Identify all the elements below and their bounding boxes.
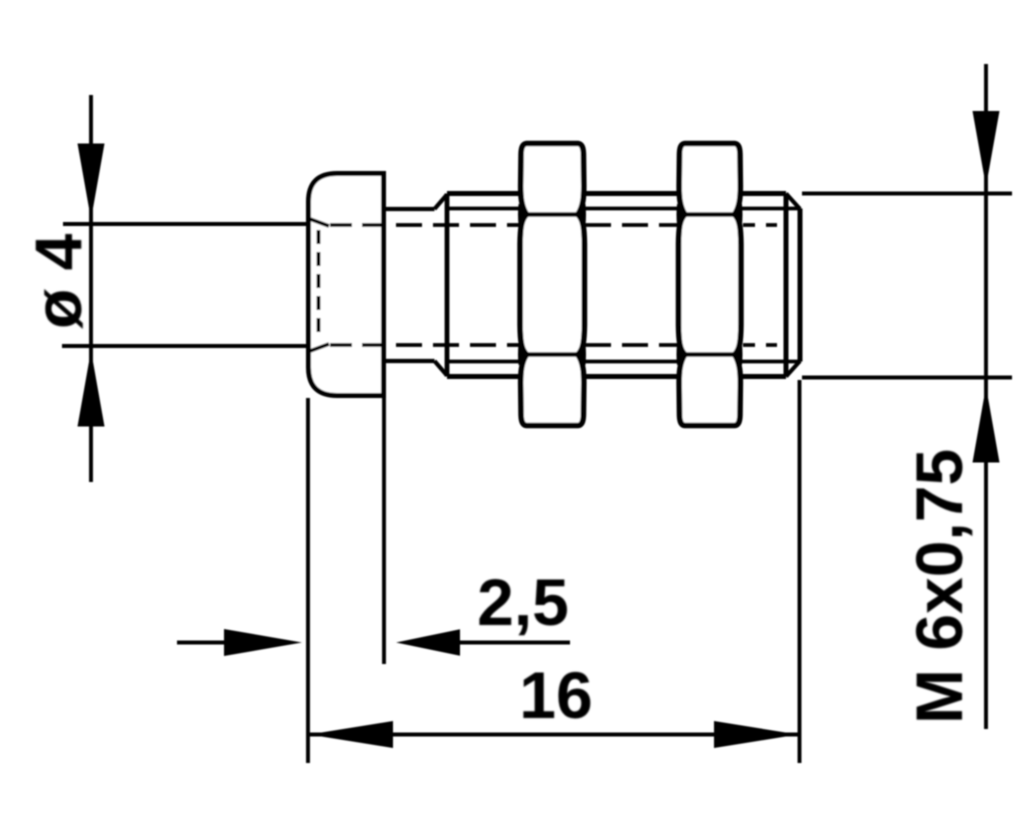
wire: thread start vertical edge [445,194,450,377]
nut N1 lower waist line [527,352,578,356]
cap hidden bore dash bottom [330,343,382,347]
nut cusp wedge [677,344,687,366]
svg-text:16: 16 [519,658,592,732]
wire: end face vertical edge [798,209,803,362]
nut N2 upper waist line [684,212,735,216]
dimension 16 arrow left [309,721,393,748]
wire: neck top line between cap and thread [384,207,435,211]
wire: neck bottom line between cap and thread [384,359,435,363]
dimension ø4 dimension line [89,95,93,482]
cap hidden bore end dashed vertical [317,230,321,340]
dimension 2,5 extension line left [306,398,310,763]
nut cusp wedge [518,204,528,226]
nut N2 lower waist line [684,352,735,356]
dimension 16 extension line right [798,380,802,763]
cap bore chamfer bottom [310,344,329,351]
cap body outline [309,174,384,396]
wire: thread root top line [447,207,800,211]
wire: thread crest bottom line [447,374,786,379]
wire: hidden bore dashed line bottom segment 1 [385,343,519,347]
dimension 2,5 leader line left [177,641,225,645]
svg-text:M 6x0,75: M 6x0,75 [902,449,976,724]
wire: thread end chamfer top [786,194,800,210]
wire: thread root bottom line [447,360,800,364]
nut N1 hex nut outline [520,144,584,426]
dimension 16 arrow right [714,721,798,748]
dimension 16 dimension line [308,733,800,737]
nut cusp wedge [677,204,687,226]
dimension ø4 arrow bottom [78,351,105,427]
dimension M6 dimension line [984,64,988,729]
nut N2 hex nut outline [679,144,741,426]
dimension ø4 extension line bottom [62,344,308,348]
wire: hidden bore dashed line top segment 1 [385,223,519,227]
nut cusp wedge [576,344,586,366]
dimension M6 extension line top [802,192,1012,196]
nut cusp wedge [576,204,586,226]
nut cusp wedge [518,344,528,366]
svg-text:ø 4: ø 4 [21,233,95,329]
nut cusp wedge [732,344,742,366]
dimension M6 extension line bottom [802,376,1012,380]
wire: hidden bore dashed line top segment 3 [743,223,777,227]
svg-text:2,5: 2,5 [477,565,569,639]
cap hidden bore dash top [330,223,382,227]
wire: thread start chamfer bottom [435,361,448,376]
dimension M6 arrow top [973,111,1000,187]
dimension 2,5 arrow right [396,629,460,656]
wire: thread end chamfer bottom [786,361,800,377]
nut cusp wedge [732,204,742,226]
cap bore chamfer top [310,219,329,226]
dimension ø4 extension line top [63,222,308,226]
dimension M6 arrow bottom [973,387,1000,463]
wire: thread start chamfer top [435,195,448,210]
dimension 2,5 extension line right [382,398,386,664]
wire: hidden bore dashed line bottom segment 3 [743,343,777,347]
wire: hidden bore dashed line top segment 2 [585,223,678,227]
wire: thread crest top line [447,191,786,196]
wire: hidden bore dashed line bottom segment 2 [585,343,678,347]
nut N1 upper waist line [527,212,578,216]
dimension 2,5 leader line right [460,641,570,645]
dimension 2,5 arrow left [224,629,302,656]
wire: thread end vertical edge [784,194,789,377]
dimension ø4 arrow top [78,144,105,220]
